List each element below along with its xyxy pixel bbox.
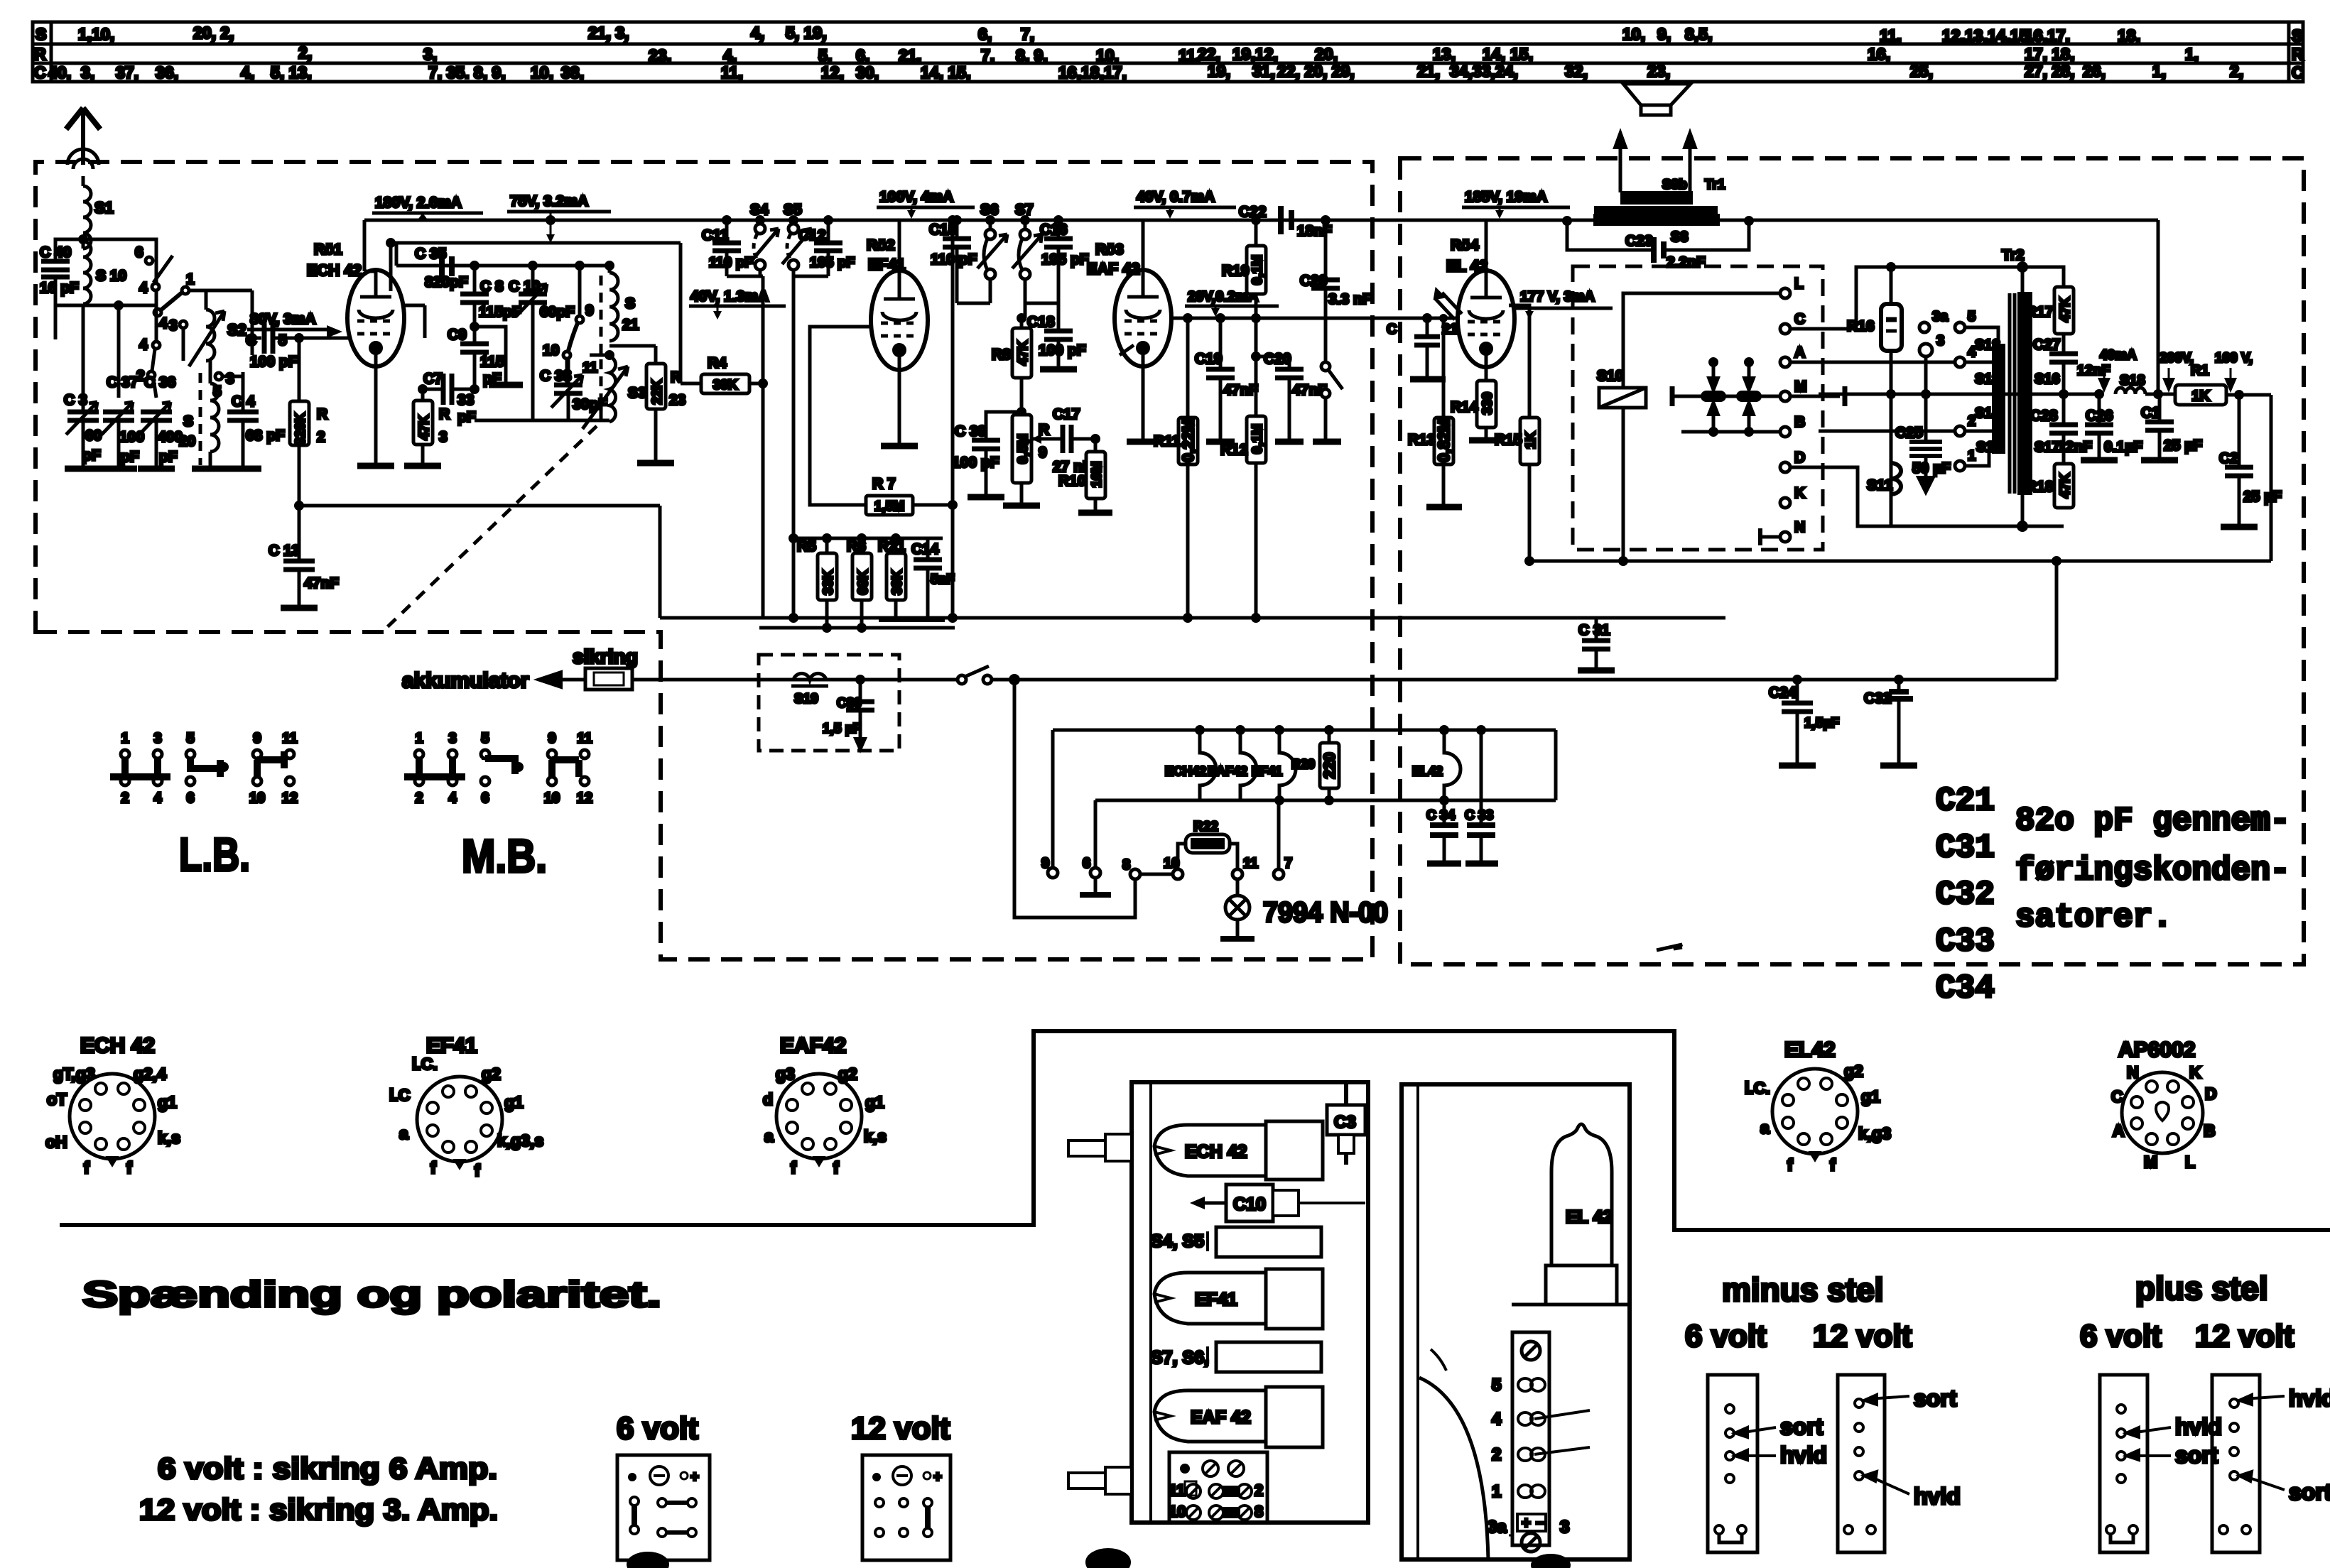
svg-text:S: S bbox=[183, 413, 193, 430]
svg-text:25 µF: 25 µF bbox=[2243, 489, 2282, 505]
svg-text:EL42: EL42 bbox=[1784, 1038, 1836, 1062]
chassis box 2 bbox=[1402, 1084, 1630, 1559]
svg-text:3,: 3, bbox=[423, 45, 437, 63]
svg-text:L: L bbox=[2185, 1153, 2195, 1171]
svg-text:k,s: k,s bbox=[158, 1128, 180, 1147]
resistor R16 bbox=[1887, 263, 1895, 271]
Tr2 top lead bbox=[2021, 267, 2025, 293]
svg-text:3: 3 bbox=[448, 731, 456, 746]
resistor R2 820K bbox=[296, 334, 303, 342]
capacitor C24 1.5uF bbox=[1794, 676, 1801, 683]
capacitor C13 47nF bbox=[283, 561, 315, 608]
input box with C40 / S10 bbox=[41, 239, 156, 305]
svg-text:B: B bbox=[2204, 1121, 2216, 1140]
wire osc grid to block bbox=[403, 304, 425, 307]
svg-text:C: C bbox=[1387, 322, 1397, 337]
svg-text:EL 42: EL 42 bbox=[1446, 257, 1488, 275]
C11/S4 bottom rail bbox=[727, 275, 763, 278]
tube ECH42 chassis view bbox=[1154, 1125, 1266, 1176]
akkumulator arrow bbox=[540, 678, 585, 682]
chassis box 1 bbox=[1132, 1082, 1368, 1523]
svg-text:C24: C24 bbox=[1769, 685, 1797, 701]
trimmer S4 bbox=[749, 220, 779, 276]
svg-text:C2: C2 bbox=[2219, 450, 2238, 467]
terminal strip chassis bbox=[1512, 1332, 1549, 1545]
resistor R10 10M bbox=[1092, 435, 1099, 442]
svg-text:47K: 47K bbox=[2058, 297, 2073, 322]
svg-text:R20: R20 bbox=[1291, 757, 1315, 771]
speaker wires with arrows bbox=[1619, 142, 1622, 192]
resistor R3 47K bbox=[421, 389, 425, 401]
svg-text:21, 3,: 21, 3, bbox=[588, 23, 629, 42]
svg-text:A: A bbox=[1794, 344, 1805, 361]
svg-text:R: R bbox=[439, 406, 450, 423]
svg-text:R19: R19 bbox=[1222, 263, 1250, 279]
variable capacitor C3 bbox=[66, 398, 99, 469]
svg-text:12 volt: 12 volt bbox=[1813, 1319, 1912, 1354]
svg-text:satorer.: satorer. bbox=[2015, 899, 2172, 936]
heater top bus bbox=[1053, 729, 1556, 732]
svg-text:22,: 22, bbox=[1198, 45, 1220, 63]
svg-text:R21: R21 bbox=[878, 538, 906, 555]
svg-text:38,: 38, bbox=[561, 63, 584, 82]
lamp 7994 N-00 bbox=[1236, 879, 1240, 895]
second return line bbox=[759, 626, 955, 630]
ruler row R numbers bbox=[34, 43, 2304, 65]
coil S1 bbox=[83, 176, 91, 249]
svg-text:hvid: hvid bbox=[2175, 1414, 2222, 1439]
capacitor C34 bbox=[1443, 800, 1446, 825]
svg-text:330: 330 bbox=[1480, 392, 1495, 415]
svg-text:31,: 31, bbox=[1252, 62, 1275, 80]
terminal 6 with ground bbox=[1094, 800, 1098, 868]
terminal C bbox=[1780, 324, 1790, 334]
coil S3 bbox=[582, 356, 628, 429]
svg-text:100V, 4mA: 100V, 4mA bbox=[879, 189, 953, 205]
svg-text:Rö3: Rö3 bbox=[1095, 241, 1124, 258]
svg-text:1,10,: 1,10, bbox=[78, 25, 114, 43]
ground under C13 bbox=[281, 605, 318, 611]
svg-text:7,: 7, bbox=[981, 46, 995, 65]
svg-text:Spænding og polaritet.: Spænding og polaritet. bbox=[82, 1274, 661, 1314]
svg-text:12nF: 12nF bbox=[2077, 363, 2110, 379]
svg-text:EAF 42: EAF 42 bbox=[1191, 1408, 1251, 1427]
resistor R20 bbox=[1328, 730, 1331, 743]
svg-text:20, 2,: 20, 2, bbox=[193, 23, 234, 42]
supply bus 2 bbox=[391, 241, 681, 245]
svg-text:EF41: EF41 bbox=[1195, 1290, 1237, 1310]
connector block chassis bbox=[1169, 1452, 1267, 1523]
svg-text:S8: S8 bbox=[1671, 229, 1688, 245]
resistor R18 bbox=[2054, 464, 2074, 508]
svg-text:M.B.: M.B. bbox=[462, 829, 547, 882]
12 volt connector box bbox=[862, 1455, 950, 1560]
svg-text:18,: 18, bbox=[2118, 26, 2140, 45]
svg-text:47nF: 47nF bbox=[304, 575, 339, 592]
svg-text:+: + bbox=[933, 1469, 942, 1485]
svg-text:plus stel: plus stel bbox=[2135, 1270, 2268, 1307]
svg-text:14,: 14, bbox=[1483, 45, 1505, 63]
svg-text:10M: 10M bbox=[1090, 462, 1105, 488]
svg-text:1: 1 bbox=[121, 731, 129, 746]
svg-text:S18: S18 bbox=[2120, 373, 2145, 388]
svg-text:4: 4 bbox=[159, 315, 168, 332]
svg-text:3: 3 bbox=[169, 317, 178, 334]
svg-text:5: 5 bbox=[278, 332, 287, 349]
svg-text:19,: 19, bbox=[1208, 62, 1230, 80]
svg-text:a: a bbox=[764, 1127, 774, 1145]
svg-text:ECH42: ECH42 bbox=[1165, 764, 1206, 778]
svg-text:110 pF: 110 pF bbox=[931, 251, 977, 268]
svg-text:10,: 10, bbox=[531, 63, 553, 82]
svg-text:R12: R12 bbox=[1220, 442, 1248, 458]
svg-text:1: 1 bbox=[1968, 448, 1976, 464]
svg-text:C 36: C 36 bbox=[144, 374, 175, 391]
resistor R6 68K bbox=[860, 538, 864, 553]
dashed core S20 bbox=[199, 373, 202, 465]
svg-text:3: 3 bbox=[226, 371, 234, 387]
svg-text:0,1M: 0,1M bbox=[1250, 424, 1265, 454]
svg-text:AP6002: AP6002 bbox=[2118, 1038, 2195, 1062]
C21 C31 C32 C33 C34 list bbox=[1936, 783, 1995, 1007]
svg-text:pF: pF bbox=[457, 409, 476, 425]
battery feed down to heaters bbox=[1014, 680, 1135, 918]
resistor R23 22K bbox=[609, 344, 656, 348]
svg-text:C22: C22 bbox=[1239, 204, 1267, 220]
svg-text:C30: C30 bbox=[837, 696, 862, 711]
akkumulator line bbox=[632, 678, 958, 682]
antenna bbox=[66, 108, 100, 169]
svg-text:−: − bbox=[1536, 1514, 1545, 1532]
svg-text:32,: 32, bbox=[1565, 62, 1588, 80]
svg-text:100 pF: 100 pF bbox=[250, 354, 298, 370]
L.B. switch diagram bbox=[121, 750, 294, 785]
svg-text:6: 6 bbox=[1083, 856, 1090, 871]
svg-text:47K: 47K bbox=[2058, 473, 2073, 498]
svg-text:12nF: 12nF bbox=[2057, 439, 2092, 455]
svg-text:6,: 6, bbox=[856, 46, 869, 65]
svg-text:26,: 26, bbox=[2083, 62, 2106, 80]
capacitor C23 2.2nF bbox=[1654, 237, 1664, 263]
svg-text:6 volt: 6 volt bbox=[2080, 1319, 2162, 1354]
svg-text:C 35: C 35 bbox=[415, 246, 447, 262]
resistor R14 330 bbox=[1485, 364, 1488, 381]
svg-text:+: + bbox=[690, 1469, 699, 1485]
svg-text:S3: S3 bbox=[628, 385, 646, 401]
svg-text:R6: R6 bbox=[847, 538, 866, 555]
svg-text:S: S bbox=[625, 295, 635, 312]
svg-text:3: 3 bbox=[153, 731, 161, 746]
svg-text:20: 20 bbox=[179, 433, 195, 450]
svg-text:C34: C34 bbox=[1936, 970, 1995, 1007]
speaker bbox=[1623, 84, 1691, 115]
svg-text:3: 3 bbox=[1936, 333, 1944, 349]
ground under R3 bbox=[404, 463, 441, 469]
svg-text:2: 2 bbox=[1492, 1445, 1501, 1464]
svg-text:g2: g2 bbox=[838, 1065, 857, 1083]
svg-text:80V, 3mA: 80V, 3mA bbox=[250, 311, 316, 327]
svg-text:12 volt: 12 volt bbox=[851, 1411, 950, 1446]
heater EL42 bbox=[1444, 730, 1461, 800]
heater EF41 bbox=[1279, 730, 1296, 800]
6 volt connector box bbox=[617, 1455, 710, 1560]
svg-text:i.C: i.C bbox=[389, 1086, 410, 1104]
svg-text:8: 8 bbox=[1122, 857, 1130, 873]
terminal 4 / A line bbox=[1790, 361, 1955, 364]
svg-text:7: 7 bbox=[1284, 856, 1292, 871]
capacitor C5 100pF bbox=[264, 322, 348, 354]
coil S20 bbox=[183, 328, 219, 469]
svg-text:C31: C31 bbox=[1936, 829, 1995, 866]
svg-text:6: 6 bbox=[135, 244, 143, 261]
svg-text:S 10: S 10 bbox=[96, 268, 126, 284]
capacitor C31 feedthrough on return bus bbox=[1582, 641, 1610, 649]
svg-text:C: C bbox=[246, 332, 256, 349]
svg-text:4: 4 bbox=[139, 280, 148, 296]
contact 3b bbox=[215, 373, 222, 380]
plus 6V strip bbox=[2100, 1375, 2147, 1552]
svg-text:C27: C27 bbox=[2033, 337, 2061, 353]
variable capacitor C36 bbox=[139, 402, 172, 469]
minus 12V labels bbox=[1868, 1396, 1909, 1399]
terminal 3 bbox=[1919, 344, 1932, 356]
svg-text:100 pF: 100 pF bbox=[1039, 342, 1086, 359]
svg-text:5, 19,: 5, 19, bbox=[786, 23, 827, 42]
svg-text:i.C.: i.C. bbox=[412, 1055, 438, 1073]
svg-text:10,: 10, bbox=[1622, 25, 1645, 43]
svg-text:10,: 10, bbox=[1096, 46, 1119, 65]
svg-text:C: C bbox=[34, 63, 46, 82]
contact 3 bbox=[180, 321, 187, 328]
svg-text:12: 12 bbox=[577, 790, 592, 806]
resistor R12 0.1M bbox=[1252, 315, 1259, 322]
terminal N bbox=[1780, 532, 1790, 542]
svg-text:195 pF: 195 pF bbox=[1041, 251, 1089, 268]
svg-text:gT,g3: gT,g3 bbox=[53, 1065, 95, 1083]
heater ECH42 bbox=[1200, 730, 1216, 800]
svg-text:30K: 30K bbox=[713, 378, 738, 393]
S5/C12 bottom rail bbox=[793, 275, 828, 278]
svg-text:15,: 15, bbox=[1510, 45, 1533, 63]
tube EF41 chassis view bbox=[1154, 1273, 1266, 1324]
capacitor C1 25uF bbox=[2158, 393, 2161, 396]
S19 C30 dashed box bbox=[759, 655, 899, 751]
svg-text:10: 10 bbox=[543, 342, 559, 359]
svg-text:1,5M: 1,5M bbox=[874, 499, 904, 514]
svg-text:sikring: sikring bbox=[573, 646, 638, 668]
svg-text:sort: sort bbox=[1914, 1385, 1957, 1411]
svg-text:d: d bbox=[763, 1090, 773, 1109]
capacitor C20 47nF bbox=[1256, 356, 1289, 369]
svg-text:12 volt : sikring 3. Amp: 12 volt : sikring 3. Amp. bbox=[139, 1493, 498, 1526]
svg-text:3a: 3a bbox=[1488, 1518, 1507, 1537]
EAF42 cathode ground bbox=[1142, 365, 1145, 442]
svg-text:M: M bbox=[1794, 379, 1807, 395]
terminal 10 bbox=[1173, 869, 1183, 879]
svg-text:oH: oH bbox=[45, 1133, 67, 1151]
relay contact arrows from A bbox=[1712, 362, 1716, 383]
svg-text:195 pF: 195 pF bbox=[810, 255, 855, 271]
svg-text:g1: g1 bbox=[1861, 1087, 1880, 1106]
svg-text:C: C bbox=[1794, 311, 1805, 327]
svg-text:C 34: C 34 bbox=[1426, 808, 1456, 823]
ECH42 screen lead bbox=[389, 243, 393, 291]
svg-text:22K: 22K bbox=[650, 379, 665, 404]
svg-text:2: 2 bbox=[1255, 1481, 1263, 1499]
B line bbox=[1681, 430, 1780, 434]
svg-text:6: 6 bbox=[186, 790, 194, 806]
svg-text:2: 2 bbox=[121, 790, 129, 806]
transformer Tr1 bbox=[1622, 192, 1691, 203]
resistor R7 1.5M bbox=[809, 494, 811, 505]
svg-text:Rö2: Rö2 bbox=[867, 237, 895, 254]
minus 12V strip bbox=[1838, 1375, 1885, 1552]
N stub bbox=[1760, 535, 1780, 539]
svg-text:Tr2: Tr2 bbox=[2002, 247, 2025, 263]
svg-text:f: f bbox=[1787, 1155, 1793, 1174]
svg-text:8: 8 bbox=[1255, 1503, 1263, 1520]
svg-text:75V, 3.2mA: 75V, 3.2mA bbox=[510, 193, 588, 209]
svg-text:820K: 820K bbox=[293, 413, 308, 445]
switch contact 6 bbox=[146, 256, 173, 290]
svg-text:S16: S16 bbox=[2034, 371, 2060, 387]
svg-text:C7: C7 bbox=[423, 371, 443, 387]
svg-text:4: 4 bbox=[139, 337, 148, 353]
svg-text:R22: R22 bbox=[1193, 820, 1218, 834]
svg-text:68K: 68K bbox=[856, 570, 871, 594]
svg-text:0,22M: 0,22M bbox=[1179, 418, 1197, 462]
svg-text:S13: S13 bbox=[1975, 371, 2000, 387]
svg-text:R13: R13 bbox=[1408, 432, 1436, 448]
svg-text:30,: 30, bbox=[856, 63, 879, 82]
terminal M bbox=[1780, 391, 1790, 401]
svg-text:R: R bbox=[2292, 45, 2304, 63]
svg-text:4: 4 bbox=[1492, 1410, 1502, 1429]
svg-text:220: 220 bbox=[1321, 753, 1338, 779]
svg-text:6 volt: 6 volt bbox=[617, 1411, 698, 1446]
variable capacitor C37 bbox=[102, 402, 134, 469]
svg-text:pF: pF bbox=[82, 447, 101, 464]
svg-text:C17: C17 bbox=[1053, 406, 1080, 423]
svg-text:C3: C3 bbox=[1334, 1113, 1356, 1132]
wire box bottom to caps rail bbox=[54, 305, 58, 339]
capacitor C35 820pF feedthrough bbox=[442, 253, 452, 280]
svg-text:sort: sort bbox=[2289, 1479, 2330, 1505]
tube EAF42 chassis view bbox=[1154, 1390, 1266, 1442]
terminal 8 bbox=[1130, 869, 1140, 879]
resistor R21 39K bbox=[894, 538, 898, 553]
svg-text:1: 1 bbox=[415, 731, 423, 746]
EF41 anode lead bbox=[898, 220, 901, 271]
socket ECH42 bbox=[45, 1034, 180, 1177]
svg-text:a: a bbox=[399, 1124, 408, 1143]
terminal 7 bbox=[1274, 869, 1284, 879]
svg-text:Rö1: Rö1 bbox=[314, 241, 342, 258]
svg-text:S4: S4 bbox=[750, 202, 769, 218]
capacitor C33 bbox=[1480, 730, 1483, 825]
resistor R9 0.5M bbox=[1018, 408, 1025, 415]
ground under C4 bbox=[224, 466, 261, 472]
svg-text:S4, S5: S4, S5 bbox=[1151, 1231, 1204, 1251]
svg-text:23: 23 bbox=[669, 392, 686, 408]
svg-text:5: 5 bbox=[186, 731, 194, 746]
bottom line of output stage bbox=[1529, 560, 2271, 563]
svg-text:2: 2 bbox=[317, 429, 325, 445]
relay contact M line bbox=[1672, 395, 1780, 398]
svg-text:9: 9 bbox=[1041, 856, 1049, 871]
svg-text:K: K bbox=[2189, 1063, 2201, 1082]
svg-text:60: 60 bbox=[85, 428, 102, 444]
capacitor C2 25uF bbox=[2236, 391, 2243, 398]
capacitor C9 115pF bbox=[460, 327, 489, 389]
svg-text:16 pF: 16 pF bbox=[40, 280, 79, 296]
svg-text:hvid: hvid bbox=[1914, 1483, 1961, 1509]
svg-text:R4: R4 bbox=[708, 355, 727, 371]
terminal 11 bbox=[1232, 869, 1242, 879]
capacitor C7 33pF bbox=[423, 374, 475, 405]
svg-text:10: 10 bbox=[544, 790, 560, 806]
svg-text:R: R bbox=[34, 45, 46, 63]
svg-text:S: S bbox=[36, 25, 46, 43]
Tr2 bottom lead bbox=[2021, 494, 2025, 526]
svg-text:k,g3: k,g3 bbox=[1858, 1124, 1891, 1143]
svg-text:g1: g1 bbox=[865, 1093, 884, 1111]
svg-text:f: f bbox=[1830, 1155, 1836, 1174]
svg-text:S19: S19 bbox=[794, 692, 818, 707]
svg-text:4,: 4, bbox=[723, 46, 737, 65]
C23 loop under Tr1 bbox=[1567, 221, 1652, 250]
svg-text:D: D bbox=[2205, 1084, 2217, 1103]
svg-text:C 13: C 13 bbox=[269, 543, 300, 559]
ECH42 anode lead to bus bbox=[363, 220, 367, 271]
socket EF41 bbox=[389, 1034, 543, 1180]
ground under C36 bbox=[138, 466, 175, 472]
wire S2 to C5 node bbox=[252, 338, 261, 355]
svg-text:R17: R17 bbox=[2026, 304, 2054, 320]
svg-text:f: f bbox=[430, 1158, 436, 1177]
svg-text:60pF: 60pF bbox=[540, 304, 575, 320]
svg-text:1K: 1K bbox=[1524, 432, 1539, 450]
ground under R23 bbox=[637, 460, 674, 467]
svg-text:2,: 2, bbox=[2230, 62, 2243, 80]
line up to output stage bbox=[2055, 561, 2059, 680]
svg-text:25 µF: 25 µF bbox=[2164, 437, 2202, 454]
capacitor C32 feedthrough bbox=[1895, 676, 1902, 683]
svg-text:110 pF: 110 pF bbox=[709, 255, 753, 271]
svg-text:12: 12 bbox=[282, 790, 298, 806]
minus 6V labels bbox=[1739, 1427, 1776, 1433]
svg-text:16,18,17,: 16,18,17, bbox=[1058, 63, 1127, 82]
svg-text:C: C bbox=[2292, 63, 2304, 82]
knob shaft bottom bbox=[1068, 1473, 1108, 1488]
svg-text:C15: C15 bbox=[929, 222, 957, 238]
svg-text:S8b: S8b bbox=[1662, 178, 1687, 192]
capacitor C27 12nF bbox=[2049, 354, 2078, 362]
svg-text:f: f bbox=[126, 1158, 132, 1177]
svg-text:11: 11 bbox=[1169, 1481, 1185, 1499]
resistor R15 1K bbox=[1509, 305, 1529, 418]
switch blade node 1 to 4 bbox=[154, 287, 189, 316]
svg-text:føringskonden-: føringskonden- bbox=[2015, 852, 2290, 889]
relay dashed box bbox=[1573, 266, 1823, 550]
choke S19 bbox=[793, 673, 826, 680]
svg-text:pF: pF bbox=[159, 449, 178, 465]
svg-text:g2: g2 bbox=[1844, 1062, 1863, 1080]
svg-text:g3: g3 bbox=[776, 1065, 795, 1083]
svg-text:0,1M: 0,1M bbox=[1250, 255, 1265, 285]
svg-text:115pF: 115pF bbox=[479, 304, 521, 320]
svg-text:25,: 25, bbox=[1910, 62, 1933, 80]
